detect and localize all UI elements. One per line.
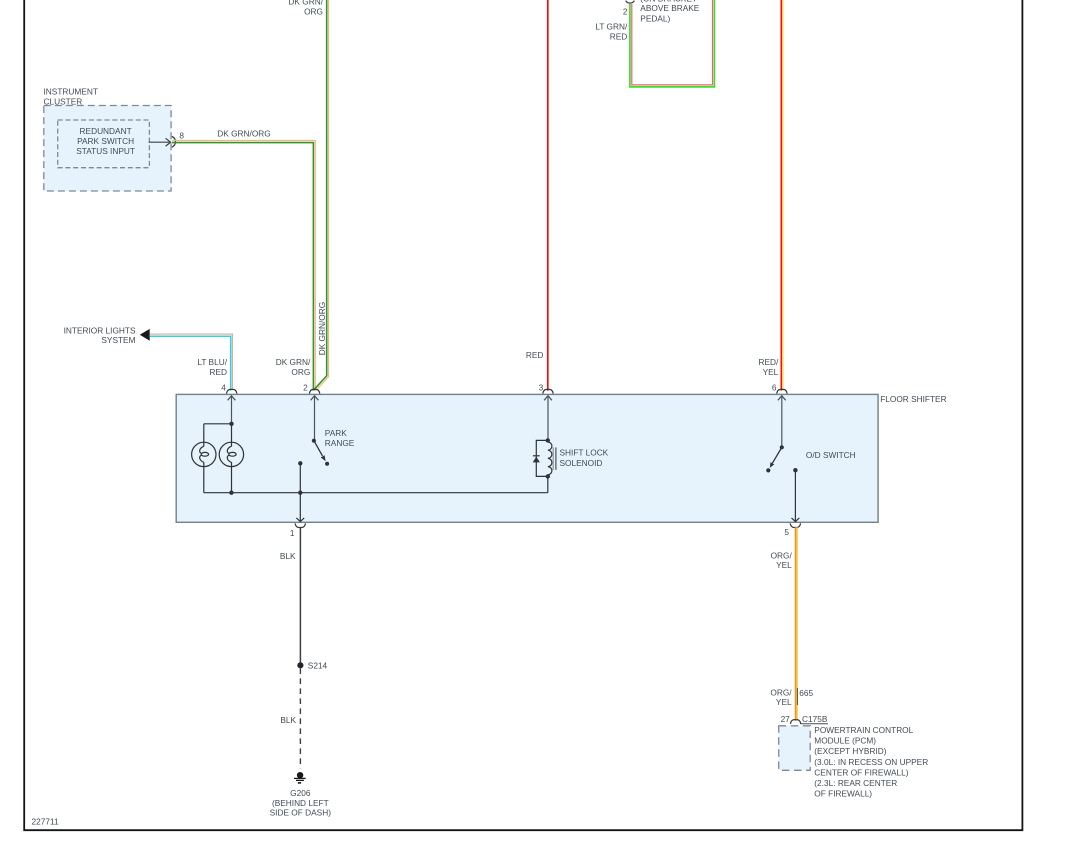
svg-text:(EXCEPT HYBRID): (EXCEPT HYBRID) [814, 746, 886, 756]
svg-text:OF FIREWALL): OF FIREWALL) [814, 789, 872, 799]
svg-text:STATUS INPUT: STATUS INPUT [76, 146, 135, 156]
svg-text:4: 4 [221, 382, 226, 392]
svg-text:ABOVE BRAKE: ABOVE BRAKE [640, 3, 699, 13]
svg-text:CENTER OF FIREWALL): CENTER OF FIREWALL) [814, 767, 908, 777]
svg-text:BLK: BLK [280, 715, 296, 725]
svg-text:SIDE OF DASH): SIDE OF DASH) [270, 808, 332, 818]
svg-text:INSTRUMENT: INSTRUMENT [44, 87, 98, 97]
svg-text:RED: RED [209, 367, 227, 377]
svg-text:6: 6 [772, 383, 777, 393]
svg-text:(3.0L: IN RECESS ON UPPER: (3.0L: IN RECESS ON UPPER [814, 757, 928, 767]
svg-text:RANGE: RANGE [325, 438, 355, 448]
svg-text:INTERIOR LIGHTS: INTERIOR LIGHTS [64, 325, 136, 335]
svg-text:1: 1 [290, 528, 295, 538]
svg-text:YEL: YEL [776, 697, 792, 707]
svg-text:RED/: RED/ [758, 357, 779, 367]
svg-text:DK GRN/ORG: DK GRN/ORG [317, 302, 327, 355]
svg-text:(2.3L: REAR CENTER: (2.3L: REAR CENTER [814, 778, 897, 788]
svg-text:LT BLU/: LT BLU/ [197, 357, 227, 367]
svg-text:CLUSTER: CLUSTER [44, 96, 83, 106]
svg-text:SOLENOID: SOLENOID [560, 458, 603, 468]
svg-text:665: 665 [799, 688, 813, 698]
svg-text:FLOOR SHIFTER: FLOOR SHIFTER [880, 394, 946, 404]
svg-text:227711: 227711 [32, 817, 59, 827]
svg-text:DK GRN/: DK GRN/ [276, 357, 311, 367]
svg-text:3: 3 [539, 382, 544, 392]
svg-text:ORG: ORG [304, 7, 323, 17]
svg-text:DK GRN/ORG: DK GRN/ORG [217, 129, 270, 139]
svg-text:RED: RED [610, 32, 628, 42]
svg-text:SYSTEM: SYSTEM [101, 335, 135, 345]
svg-text:POWERTRAIN CONTROL: POWERTRAIN CONTROL [814, 725, 913, 735]
svg-text:C175B: C175B [802, 714, 828, 724]
svg-text:LT GRN/: LT GRN/ [595, 22, 628, 32]
svg-text:ORG/: ORG/ [771, 550, 793, 560]
svg-text:O/D SWITCH: O/D SWITCH [806, 450, 856, 460]
svg-text:S214: S214 [308, 660, 328, 670]
svg-text:YEL: YEL [763, 367, 779, 377]
svg-text:SHIFT LOCK: SHIFT LOCK [560, 448, 609, 458]
svg-text:MODULE (PCM): MODULE (PCM) [814, 736, 876, 746]
svg-text:PARK SWITCH: PARK SWITCH [77, 136, 134, 146]
svg-text:RED: RED [526, 350, 544, 360]
svg-text:BLK: BLK [280, 551, 296, 561]
svg-text:(BEHIND LEFT: (BEHIND LEFT [272, 798, 329, 808]
svg-text:PARK: PARK [325, 428, 347, 438]
svg-text:27: 27 [781, 714, 791, 724]
svg-text:ORG: ORG [291, 367, 310, 377]
svg-text:2: 2 [623, 6, 628, 16]
svg-text:YEL: YEL [776, 560, 792, 570]
svg-text:2: 2 [303, 382, 308, 392]
svg-text:8: 8 [179, 130, 184, 140]
svg-text:G206: G206 [290, 788, 311, 798]
svg-text:REDUNDANT: REDUNDANT [80, 126, 132, 136]
svg-text:PEDAL): PEDAL) [640, 13, 670, 23]
svg-text:5: 5 [784, 527, 789, 537]
